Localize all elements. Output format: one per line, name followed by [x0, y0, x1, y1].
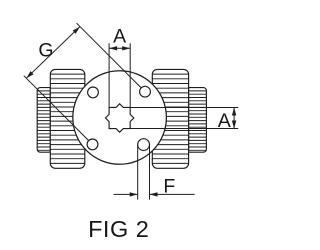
svg-text:A: A: [113, 26, 126, 48]
svg-text:FIG 2: FIG 2: [88, 216, 149, 242]
svg-text:F: F: [163, 176, 175, 198]
svg-text:A: A: [218, 110, 231, 132]
svg-text:G: G: [38, 39, 53, 61]
